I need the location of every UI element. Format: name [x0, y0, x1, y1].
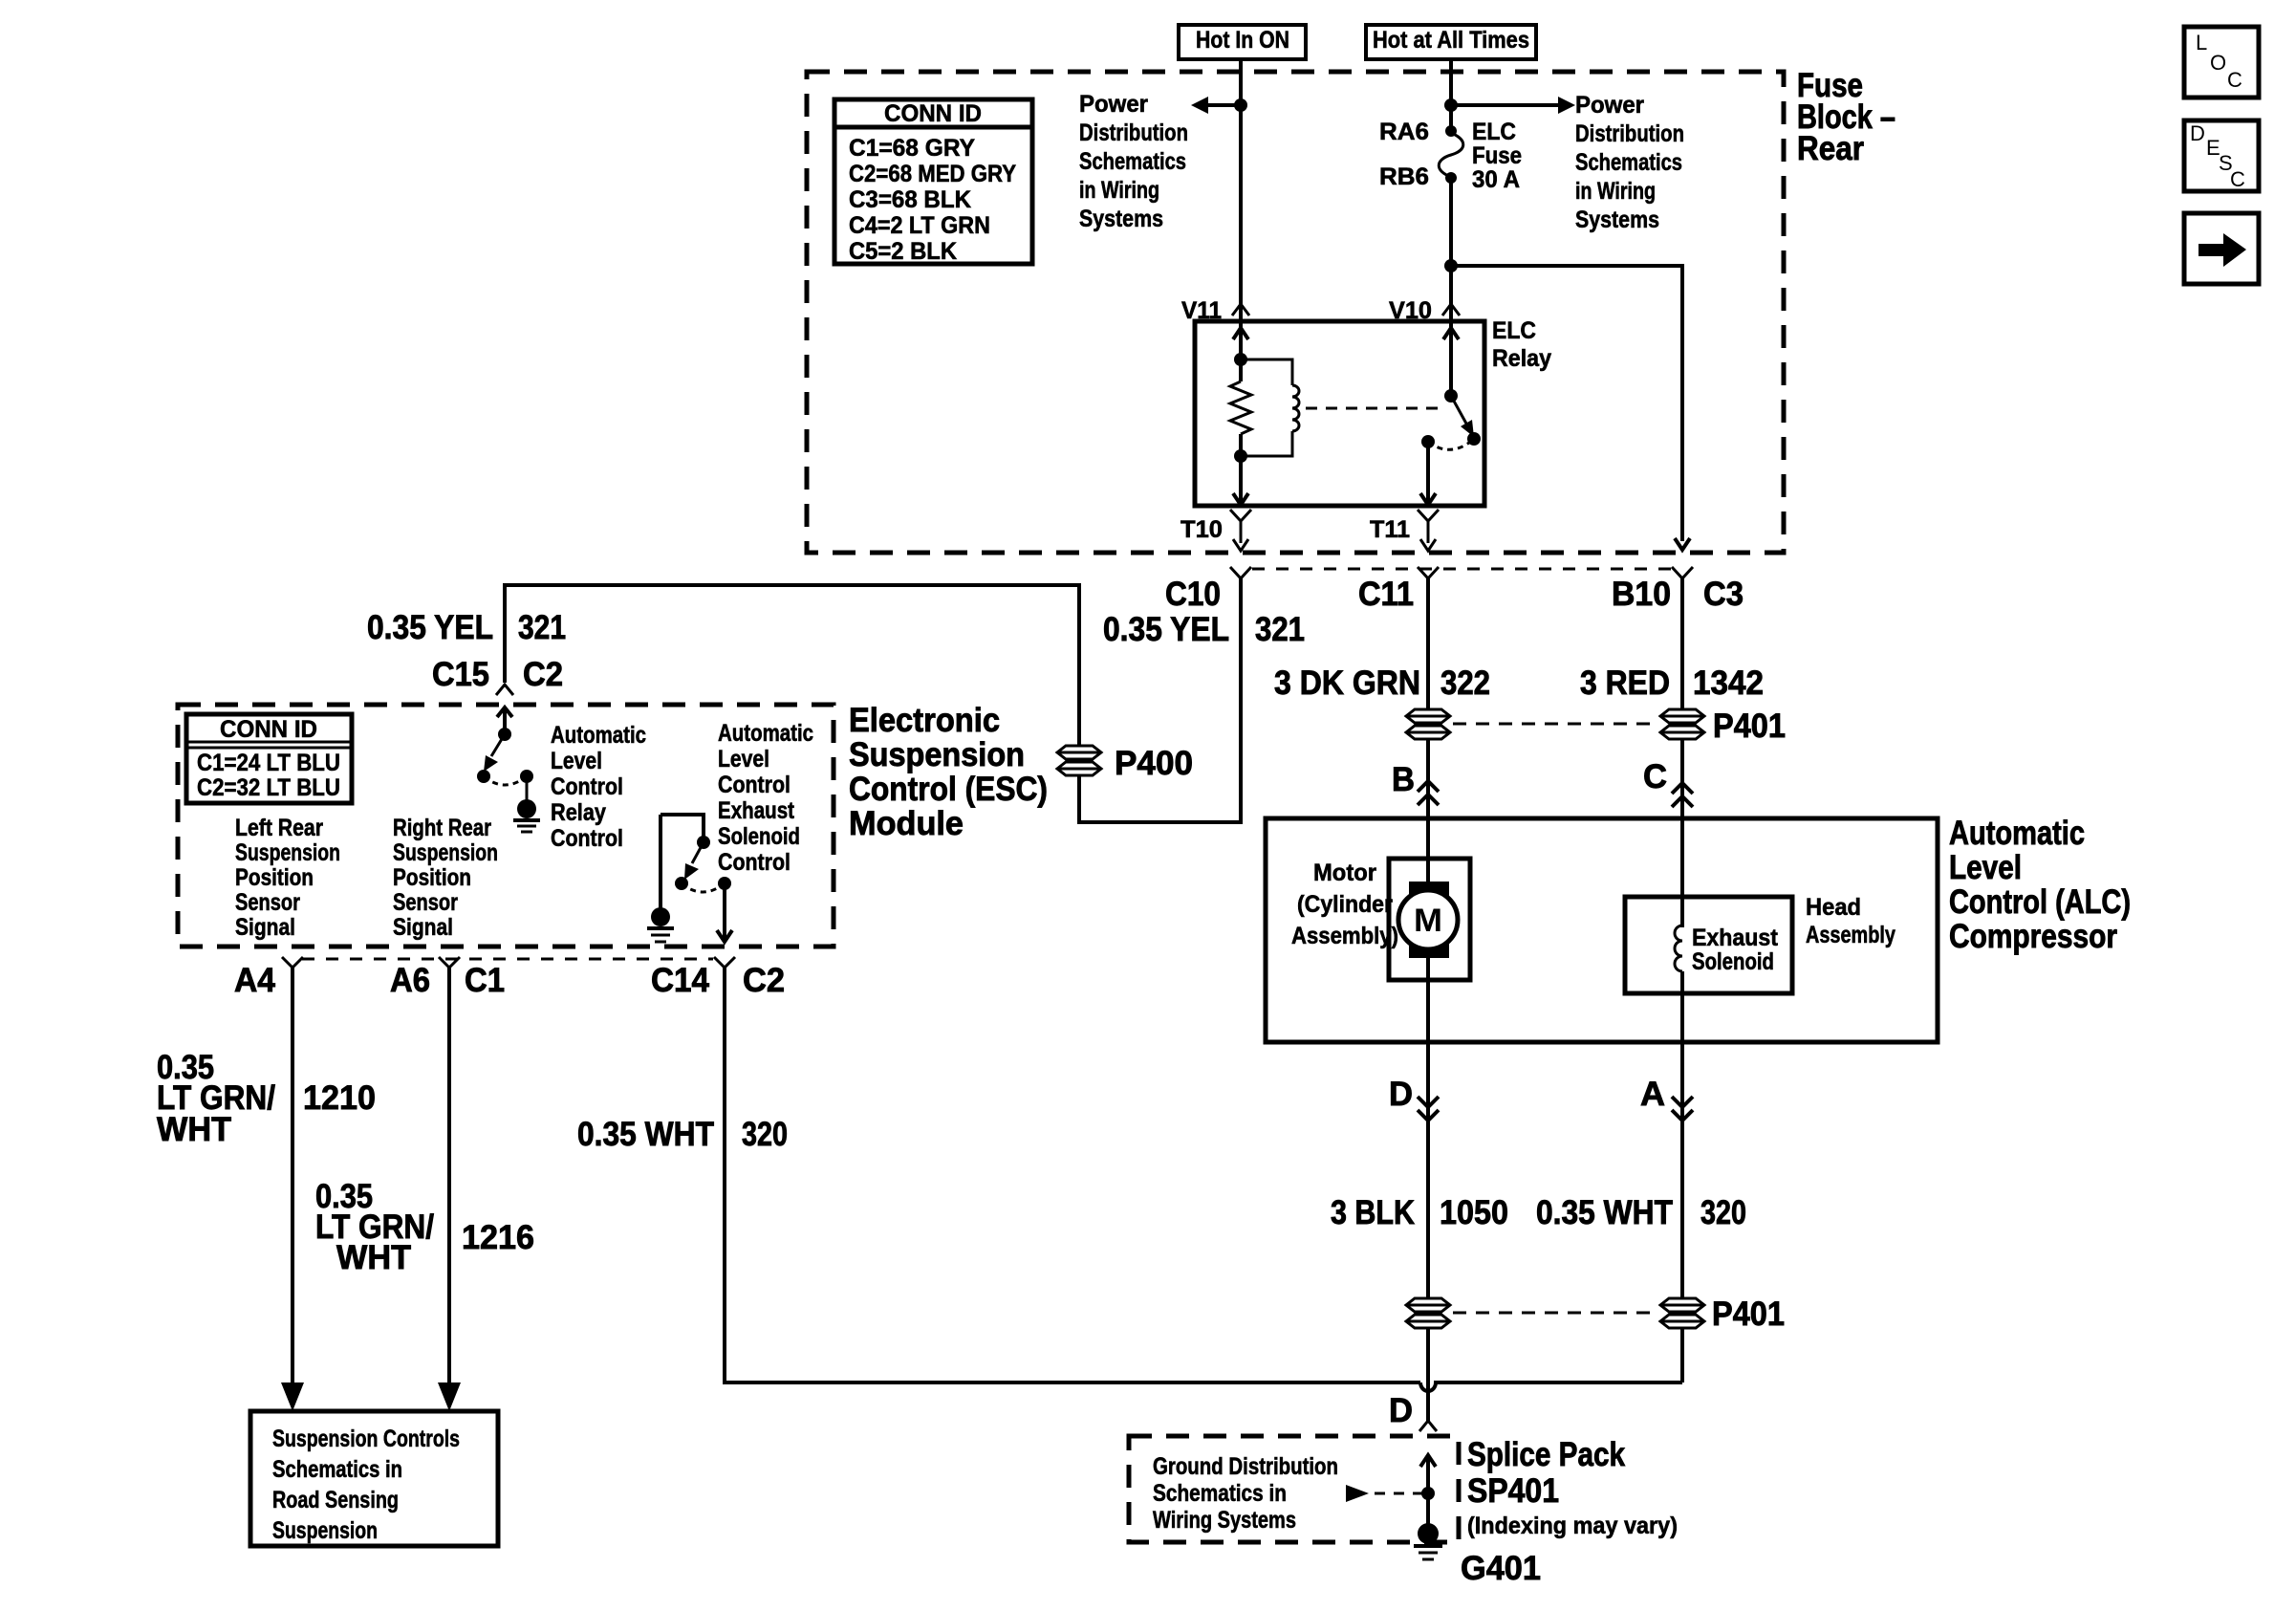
- svg-text:in Wiring: in Wiring: [1575, 178, 1656, 205]
- svg-text:RB6: RB6: [1379, 163, 1429, 190]
- svg-text:WHT: WHT: [336, 1239, 411, 1276]
- svg-text:in Wiring: in Wiring: [1079, 177, 1159, 204]
- svg-text:0.35 YEL: 0.35 YEL: [367, 609, 493, 646]
- ground distribution dashed link: [1375, 1492, 1424, 1495]
- svg-text:WHT: WHT: [157, 1111, 231, 1148]
- svg-text:320: 320: [1700, 1194, 1746, 1231]
- svg-text:C15: C15: [432, 656, 489, 693]
- svg-text:C2: C2: [743, 962, 785, 999]
- svg-text:Sensor: Sensor: [235, 889, 300, 916]
- svg-text:Head: Head: [1806, 894, 1861, 921]
- connector P401 left (bottom): [1406, 1298, 1450, 1328]
- solenoid control dashed arc: [682, 883, 725, 892]
- svg-text:Ground Distribution: Ground Distribution: [1153, 1453, 1338, 1480]
- relay contact dot left: [1421, 435, 1435, 448]
- splice run hop arc: [1420, 1382, 1682, 1391]
- wire resistor to relay bottom: [1239, 434, 1243, 506]
- svg-text:320: 320: [742, 1116, 788, 1153]
- svg-text:Automatic: Automatic: [551, 722, 646, 749]
- svg-text:Rear: Rear: [1797, 130, 1864, 167]
- connector fork C10: [1230, 567, 1251, 578]
- relay control contact dot right: [520, 770, 533, 783]
- wire Hot In ON down to relay (V11 feed): [1239, 59, 1243, 321]
- svg-text:Solenoid: Solenoid: [1692, 948, 1774, 975]
- relay actuation dashed link: [1306, 407, 1439, 410]
- svg-text:3 RED: 3 RED: [1580, 664, 1670, 702]
- svg-text:M: M: [1414, 903, 1442, 939]
- svg-text:Automatic: Automatic: [718, 720, 813, 747]
- reference box Suspension Controls Schematics: [250, 1411, 498, 1546]
- svg-text:Relay: Relay: [551, 799, 606, 826]
- svg-text:0.35 YEL: 0.35 YEL: [1103, 611, 1229, 648]
- relay control dashed arc: [484, 776, 527, 785]
- svg-text:C1=24 LT BLU: C1=24 LT BLU: [197, 750, 340, 776]
- svg-text:Systems: Systems: [1575, 207, 1659, 233]
- Hot at All Times box: [1366, 25, 1536, 59]
- svg-text:Automatic: Automatic: [1949, 815, 2085, 852]
- svg-text:C: C: [1643, 758, 1667, 795]
- svg-text:T10: T10: [1180, 516, 1223, 543]
- label Ground Distribution Schematics in Wiring Systems: [1153, 1453, 1338, 1534]
- ground (solenoid control): [647, 907, 674, 942]
- relay switch blade: [1451, 396, 1474, 437]
- label Automatic Level Control Exhaust Solenoid Control: [718, 720, 813, 876]
- svg-text:Systems: Systems: [1079, 206, 1163, 232]
- wire motor to D: [1426, 958, 1430, 1382]
- arrow out of ESC at C14: [717, 930, 732, 942]
- svg-text:Power: Power: [1575, 92, 1644, 119]
- connector P401 left (top): [1406, 709, 1450, 739]
- svg-text:P400: P400: [1115, 745, 1193, 782]
- fuse ELC 30A element: [1439, 125, 1463, 184]
- svg-text:C: C: [2227, 68, 2242, 92]
- svg-text:Signal: Signal: [235, 914, 295, 941]
- svg-text:C11: C11: [1358, 576, 1414, 613]
- svg-text:Control: Control: [551, 773, 623, 800]
- svg-text:Splice Pack: Splice Pack: [1467, 1436, 1625, 1473]
- svg-text:1216: 1216: [462, 1219, 534, 1256]
- relay coil: [1241, 359, 1299, 456]
- svg-text:3 BLK: 3 BLK: [1331, 1194, 1415, 1231]
- connector P401 right (top): [1660, 709, 1704, 739]
- svg-text:Power: Power: [1079, 91, 1148, 118]
- arrow chevron into relay (right): [1443, 328, 1459, 339]
- wire solenoid return corner: [1680, 1327, 1684, 1382]
- svg-text:P401: P401: [1713, 708, 1786, 745]
- svg-text:SP401: SP401: [1467, 1472, 1559, 1510]
- ground (relay control): [513, 799, 540, 832]
- svg-text:C10: C10: [1165, 576, 1221, 613]
- wire label 0.35 LT GRN/ WHT (A6): [315, 1178, 434, 1276]
- svg-text:CONN ID: CONN ID: [220, 716, 317, 743]
- svg-text:L: L: [2196, 31, 2207, 54]
- connector fork A6/C1: [439, 957, 460, 968]
- solenoid control switch feed wire: [661, 815, 704, 839]
- CONN ID table (ESC): [186, 714, 352, 803]
- svg-text:C3: C3: [1703, 576, 1744, 613]
- label Splice Pack SP401 (Indexing may vary): [1467, 1436, 1678, 1539]
- svg-text:Level: Level: [1949, 849, 2022, 886]
- svg-text:Control (ESC): Control (ESC): [849, 771, 1048, 808]
- svg-text:D: D: [1389, 1392, 1413, 1429]
- junction dot to B10 branch: [1444, 259, 1458, 272]
- svg-text:Sensor: Sensor: [393, 889, 458, 916]
- svg-text:C1: C1: [465, 962, 505, 999]
- relay switch pivot dot: [1444, 389, 1458, 403]
- relay resistor: [1230, 381, 1251, 434]
- svg-text:Level: Level: [718, 746, 769, 773]
- svg-text:Assembly): Assembly): [1291, 923, 1398, 949]
- solenoid control output wire: [723, 883, 726, 941]
- svg-text:Suspension Controls: Suspension Controls: [272, 1426, 460, 1452]
- svg-text:Exhaust: Exhaust: [1692, 925, 1779, 951]
- T10 connector: [1230, 510, 1251, 551]
- DESC icon box: [2184, 120, 2259, 191]
- wire solenoid to A: [1680, 971, 1684, 1382]
- wire Hot at All Times down to fuse: [1449, 59, 1453, 131]
- svg-text:Schematics in: Schematics in: [1153, 1480, 1287, 1507]
- svg-text:1210: 1210: [303, 1079, 376, 1117]
- svg-text:Level: Level: [551, 748, 602, 774]
- label Head Assembly: [1806, 894, 1895, 948]
- exhaust solenoid coil L1: [1675, 925, 1682, 971]
- motor M1: [1389, 859, 1470, 980]
- arrowhead into reference box (A6): [438, 1382, 461, 1411]
- wire C11 to motor: [1426, 578, 1430, 884]
- svg-text:C2: C2: [523, 656, 563, 693]
- arrowhead into reference box (A4): [281, 1382, 304, 1411]
- label Power Distribution Schematics in Wiring Systems (left): [1079, 91, 1188, 232]
- svg-text:ELC: ELC: [1492, 317, 1536, 344]
- svg-text:RA6: RA6: [1379, 119, 1429, 145]
- arrow into ESC at C2: [497, 708, 512, 734]
- fuse block connector interface dashed line: [1252, 568, 1673, 571]
- ground distribution arrowhead: [1346, 1485, 1369, 1502]
- connector fork V10: [1442, 304, 1460, 316]
- splice pack dashed enclosure: [1129, 1436, 1459, 1542]
- junction dot relay coil bottom: [1234, 449, 1247, 463]
- svg-text:Signal: Signal: [393, 914, 453, 941]
- connector fork B10/C3: [1672, 567, 1693, 578]
- T11 connector: [1418, 510, 1439, 551]
- svg-text:Right Rear: Right Rear: [393, 815, 491, 841]
- svg-text:Distribution: Distribution: [1575, 120, 1684, 147]
- label Electronic Suspension Control (ESC) Module: [849, 702, 1048, 842]
- direction chevrons A: [1672, 1097, 1693, 1121]
- direction chevrons B: [1418, 781, 1439, 805]
- solenoid control switch blade: [684, 842, 704, 880]
- svg-text:Hot at All Times: Hot at All Times: [1373, 27, 1529, 54]
- label Exhaust Solenoid: [1692, 925, 1779, 975]
- svg-text:Control (ALC): Control (ALC): [1949, 883, 2131, 921]
- svg-text:321: 321: [1255, 611, 1305, 648]
- label Fuse Block - Rear: [1797, 67, 1895, 167]
- svg-text:C14: C14: [651, 962, 709, 999]
- svg-text:Schematics: Schematics: [1575, 149, 1682, 176]
- svg-text:Suspension: Suspension: [235, 839, 340, 866]
- connector fork C14/C2: [714, 957, 735, 968]
- svg-text:Suspension: Suspension: [272, 1517, 378, 1544]
- svg-text:C4=2 LT GRN: C4=2 LT GRN: [849, 212, 990, 239]
- relay coil leg wire: [1239, 321, 1243, 381]
- wire A4 to reference box: [291, 968, 294, 1382]
- wire C10 to P400 loop to ESC C15: [505, 578, 1241, 822]
- svg-text:0.35 WHT: 0.35 WHT: [1536, 1194, 1673, 1231]
- svg-text:A: A: [1640, 1076, 1665, 1113]
- svg-text:Control: Control: [718, 849, 791, 876]
- solenoid control switch pivot dot: [697, 836, 710, 849]
- wire fuse to relay V10: [1449, 178, 1453, 321]
- ALC compressor box: [1266, 818, 1938, 1042]
- solenoid control contact dot right: [718, 877, 731, 890]
- svg-text:Suspension: Suspension: [393, 839, 498, 866]
- ground G401: [1414, 1523, 1442, 1559]
- svg-text:(Indexing may vary): (Indexing may vary): [1467, 1513, 1678, 1539]
- svg-text:ELC: ELC: [1472, 119, 1516, 145]
- wire label 0.35 LT GRN/ WHT (A4): [157, 1049, 275, 1148]
- ESC connector interface dashed line: [302, 958, 713, 961]
- connector fork A4: [282, 957, 303, 968]
- svg-text:Suspension: Suspension: [849, 736, 1025, 773]
- junction dot relay top: [1234, 353, 1247, 366]
- label Power Distribution Schematics in Wiring Systems (right): [1575, 92, 1684, 233]
- svg-text:Schematics: Schematics: [1079, 148, 1186, 175]
- svg-text:Motor: Motor: [1313, 860, 1376, 886]
- forward arrow icon box: [2184, 213, 2259, 284]
- relay control contact dot left: [477, 770, 490, 783]
- svg-text:3 DK GRN: 3 DK GRN: [1274, 664, 1420, 702]
- svg-text:B: B: [1392, 761, 1415, 798]
- svg-text:Relay: Relay: [1492, 345, 1551, 372]
- relay control switch blade: [484, 734, 505, 772]
- connector fork C11: [1418, 567, 1439, 578]
- relay output wire: [1426, 442, 1430, 506]
- P401 pairing dashed line (bottom): [1453, 1312, 1657, 1315]
- direction chevrons D: [1418, 1097, 1439, 1121]
- wire C2 down to splice run: [725, 968, 1420, 1382]
- svg-text:CONN ID: CONN ID: [884, 100, 982, 127]
- label Right Rear Suspension Position Sensor Signal: [393, 815, 498, 941]
- svg-text:D: D: [2190, 121, 2205, 145]
- svg-text:T11: T11: [1370, 516, 1410, 543]
- svg-text:Control: Control: [718, 772, 791, 798]
- direction chevrons C: [1672, 783, 1693, 807]
- svg-text:Wiring Systems: Wiring Systems: [1153, 1507, 1296, 1534]
- label Left Rear Suspension Position Sensor Signal: [235, 815, 340, 941]
- connector fork C15/C2: [496, 685, 513, 695]
- arrow chevron out of relay (left): [1233, 493, 1248, 505]
- svg-text:Electronic: Electronic: [849, 702, 1000, 739]
- svg-text:C2=32 LT BLU: C2=32 LT BLU: [197, 774, 340, 801]
- splice junction dot: [1421, 1487, 1435, 1500]
- arrow chevron into relay (left): [1233, 328, 1248, 339]
- svg-text:A4: A4: [234, 962, 276, 999]
- svg-text:P401: P401: [1712, 1295, 1785, 1333]
- CONN ID table (fuse block): [834, 99, 1032, 265]
- connector P400: [1057, 746, 1101, 775]
- ELC relay box: [1195, 321, 1484, 506]
- relay control ground lead: [526, 776, 529, 801]
- Electronic Suspension Control module dashed enclosure: [178, 705, 834, 947]
- Hot In ON box: [1179, 25, 1306, 59]
- svg-text:Control: Control: [551, 825, 623, 852]
- svg-text:C5=2 BLK: C5=2 BLK: [849, 238, 957, 265]
- label Automatic Level Control Relay Control: [551, 722, 646, 852]
- junction dot on V11 feed: [1234, 98, 1247, 112]
- svg-text:Compressor: Compressor: [1949, 918, 2117, 955]
- arrow chevron out of relay (right): [1420, 493, 1436, 505]
- svg-text:Road Sensing: Road Sensing: [272, 1487, 399, 1513]
- arrow into splice pack: [1420, 1455, 1436, 1526]
- svg-text:0.35 WHT: 0.35 WHT: [577, 1116, 714, 1153]
- connector fork V11: [1232, 304, 1249, 316]
- solenoid control ground lead: [659, 815, 662, 908]
- svg-text:O: O: [2210, 51, 2226, 75]
- label ELC Relay: [1492, 317, 1551, 372]
- svg-text:Distribution: Distribution: [1079, 120, 1188, 146]
- label ELC Fuse 30 A: [1472, 119, 1522, 193]
- connector P401 right (bottom): [1660, 1298, 1704, 1328]
- relay switch common wire: [1449, 321, 1453, 396]
- solenoid control contact dot left: [675, 877, 688, 890]
- svg-text:A6: A6: [390, 962, 430, 999]
- wire branch to B10/C3: [1451, 266, 1682, 541]
- svg-text:30 A: 30 A: [1472, 166, 1520, 193]
- svg-text:G401: G401: [1461, 1550, 1541, 1587]
- svg-text:Exhaust: Exhaust: [718, 797, 795, 824]
- svg-text:Hot In ON: Hot In ON: [1196, 27, 1289, 54]
- arrow into B10 connector: [1675, 538, 1690, 550]
- junction dot on V10 feed: [1444, 98, 1458, 112]
- relay contact dashed arc: [1428, 439, 1474, 449]
- svg-text:C: C: [2230, 167, 2245, 191]
- svg-text:Fuse: Fuse: [1472, 142, 1522, 169]
- svg-text:321: 321: [518, 609, 566, 646]
- connector fork D (splice): [1419, 1382, 1437, 1431]
- label Automatic Level Control (ALC) Compressor: [1949, 815, 2131, 955]
- wire C3 to solenoid: [1680, 578, 1684, 927]
- svg-text:322: 322: [1440, 664, 1490, 702]
- svg-text:C1=68 GRY: C1=68 GRY: [849, 135, 975, 162]
- head assembly / exhaust solenoid box: [1625, 897, 1792, 993]
- svg-text:Module: Module: [849, 805, 964, 842]
- svg-text:Position: Position: [393, 864, 471, 891]
- LOC icon box: [2184, 27, 2259, 98]
- svg-text:C2=68 MED GRY: C2=68 MED GRY: [849, 161, 1016, 187]
- svg-text:B10: B10: [1612, 576, 1671, 613]
- label Motor (Cylinder Assembly): [1291, 860, 1398, 949]
- svg-text:1342: 1342: [1693, 664, 1764, 702]
- wire A6 to reference box: [447, 968, 451, 1382]
- arrow to Power Distribution (right): [1451, 97, 1575, 114]
- svg-text:Position: Position: [235, 864, 314, 891]
- svg-text:Left Rear: Left Rear: [235, 815, 323, 841]
- arrow to Power Distribution (left): [1191, 97, 1241, 114]
- svg-text:D: D: [1389, 1076, 1413, 1113]
- Fuse Block - Rear dashed enclosure: [807, 72, 1784, 553]
- svg-text:1050: 1050: [1440, 1194, 1508, 1231]
- svg-text:(Cylinder: (Cylinder: [1297, 891, 1393, 918]
- relay control switch pivot dot: [498, 728, 511, 741]
- svg-text:C3=68 BLK: C3=68 BLK: [849, 186, 971, 213]
- svg-text:Schematics in: Schematics in: [272, 1456, 402, 1483]
- svg-text:Solenoid: Solenoid: [718, 823, 800, 850]
- svg-text:Assembly: Assembly: [1806, 922, 1895, 948]
- P401 pairing dashed line (top): [1453, 723, 1657, 726]
- relay contact dot right: [1467, 432, 1481, 446]
